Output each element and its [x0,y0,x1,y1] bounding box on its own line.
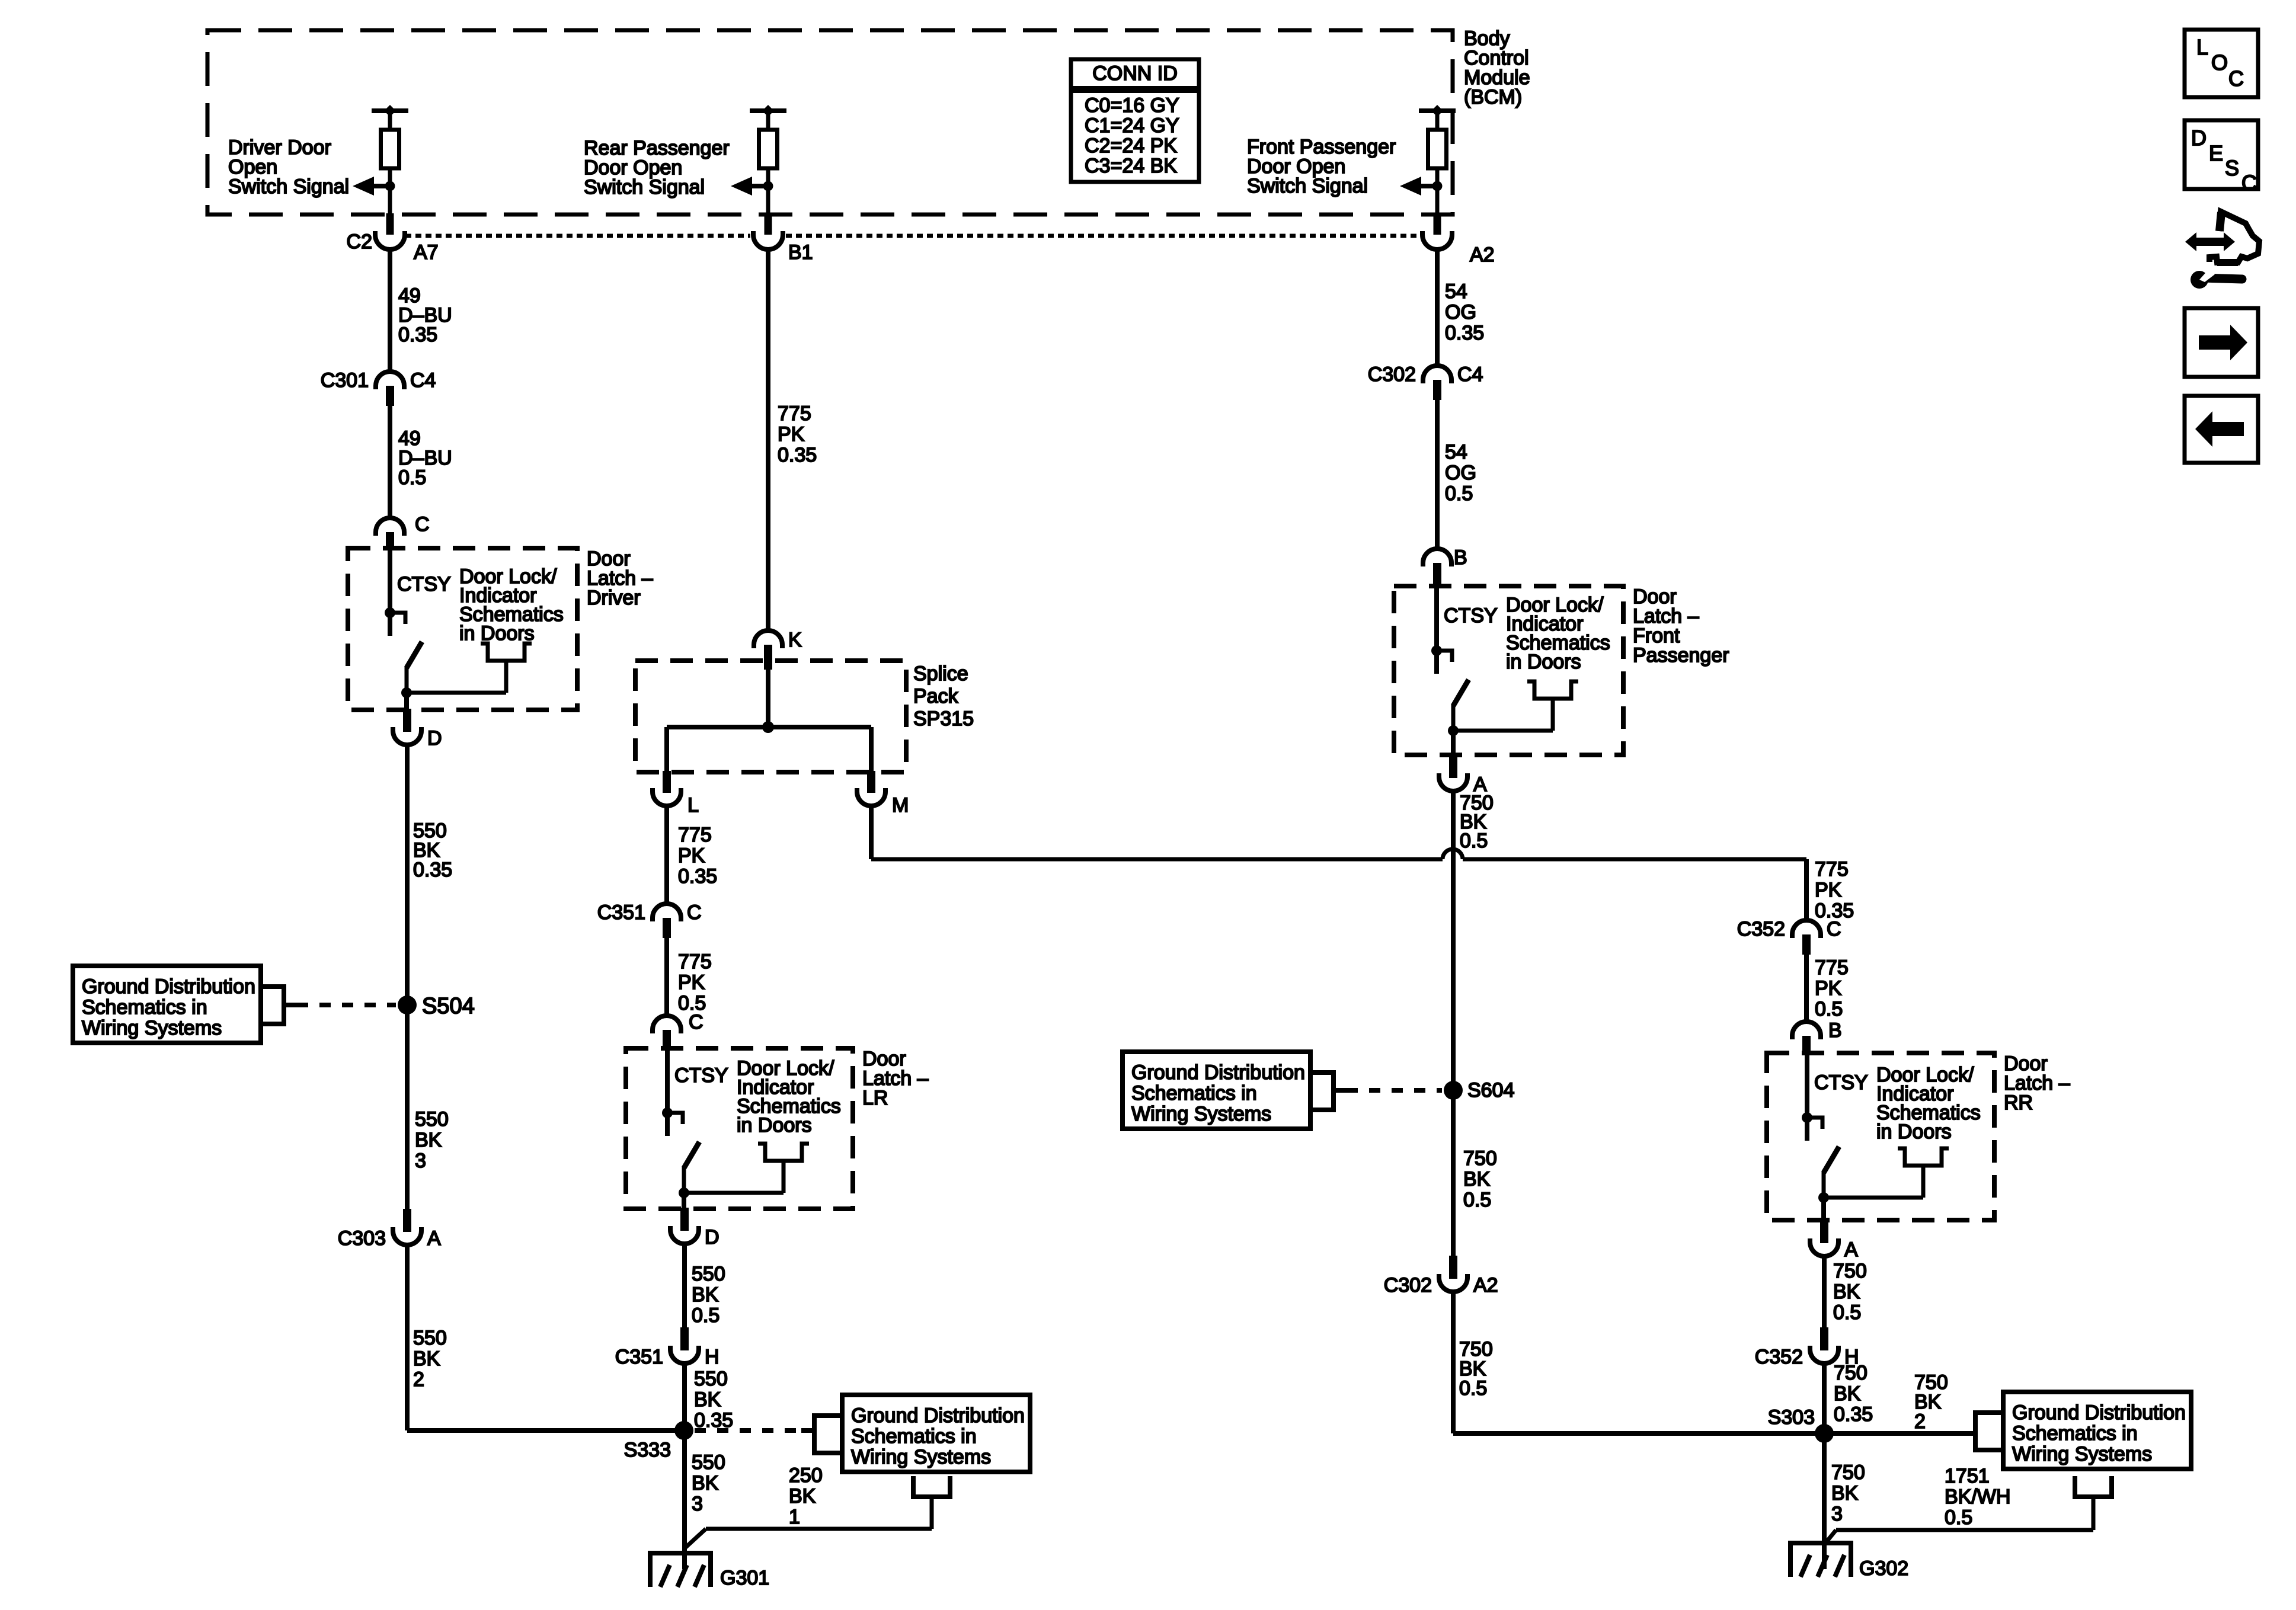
svg-text:(BCM): (BCM) [1464,86,1522,108]
svg-text:SP315: SP315 [913,708,974,730]
svg-text:Switch Signal: Switch Signal [584,176,705,199]
svg-text:Schematics in: Schematics in [1131,1082,1257,1105]
svg-text:C: C [2228,66,2244,91]
svg-text:CTSY: CTSY [397,573,451,596]
svg-text:750: 750 [1463,1147,1497,1170]
svg-text:C: C [1827,918,1841,940]
svg-text:B: B [1454,546,1467,569]
svg-text:S: S [2225,156,2239,180]
svg-text:0.5: 0.5 [1833,1301,1861,1324]
svg-text:A: A [1844,1238,1858,1261]
svg-text:PK: PK [678,971,705,994]
svg-text:L: L [2196,35,2208,59]
svg-text:C2: C2 [347,231,372,253]
svg-text:Switch Signal: Switch Signal [1247,175,1368,197]
svg-text:Splice: Splice [913,662,968,685]
svg-text:0.5: 0.5 [398,466,426,489]
svg-text:S333: S333 [624,1439,671,1461]
svg-text:Wiring Systems: Wiring Systems [2012,1443,2152,1465]
svg-text:Ground Distribution: Ground Distribution [851,1404,1025,1427]
svg-text:S303: S303 [1768,1406,1815,1429]
svg-text:CONN ID: CONN ID [1092,62,1178,85]
svg-text:550: 550 [694,1368,728,1390]
svg-text:C: C [415,513,430,536]
svg-text:A2: A2 [1470,244,1495,266]
svg-text:C303: C303 [338,1227,386,1250]
svg-text:0.35: 0.35 [778,444,817,466]
svg-text:Passenger: Passenger [1633,644,1729,667]
svg-text:OG: OG [1445,301,1476,324]
svg-text:0.5: 0.5 [1445,482,1473,505]
svg-text:BK: BK [1831,1482,1859,1505]
svg-text:Pack: Pack [913,685,959,708]
svg-text:BK: BK [1833,1281,1860,1303]
svg-text:C: C [687,901,702,924]
svg-text:B: B [1828,1019,1842,1042]
svg-text:O: O [2211,50,2228,75]
svg-text:LR: LR [862,1087,888,1109]
svg-text:Wiring Systems: Wiring Systems [851,1446,991,1468]
svg-text:750: 750 [1831,1461,1865,1484]
svg-text:L: L [687,794,699,817]
svg-text:in Doors: in Doors [459,622,535,645]
svg-text:550: 550 [692,1451,725,1474]
svg-text:M: M [892,794,909,817]
svg-text:A: A [427,1227,441,1250]
svg-text:PK: PK [678,844,705,867]
svg-text:750: 750 [1834,1362,1868,1384]
svg-text:775: 775 [678,824,712,846]
svg-text:C352: C352 [1737,918,1785,940]
svg-text:750: 750 [1833,1260,1867,1282]
svg-text:BK: BK [413,1347,440,1370]
svg-text:C4: C4 [410,369,436,392]
svg-text:C2=24 PK: C2=24 PK [1085,135,1177,157]
svg-text:CTSY: CTSY [674,1064,728,1087]
svg-text:BK: BK [415,1129,442,1151]
svg-text:Wiring Systems: Wiring Systems [1131,1103,1271,1125]
svg-text:Ground Distribution: Ground Distribution [2012,1401,2186,1424]
svg-text:D: D [2191,126,2207,150]
svg-text:54: 54 [1445,280,1467,303]
svg-text:PK: PK [778,423,805,446]
svg-text:S604: S604 [1467,1079,1514,1102]
svg-text:PK: PK [1815,879,1842,901]
svg-text:BK: BK [692,1283,719,1306]
svg-text:C351: C351 [615,1346,663,1368]
svg-text:C302: C302 [1384,1274,1432,1297]
svg-text:BK: BK [1834,1382,1861,1405]
svg-text:K: K [788,629,802,651]
svg-text:C352: C352 [1755,1346,1803,1368]
svg-text:BK: BK [692,1472,719,1494]
svg-text:Schematics in: Schematics in [851,1425,977,1448]
svg-text:0.35: 0.35 [413,859,452,881]
svg-text:0.5: 0.5 [1460,830,1488,852]
svg-text:Driver: Driver [587,587,641,609]
svg-text:0.5: 0.5 [1815,998,1843,1020]
svg-text:D: D [427,727,442,750]
svg-text:54: 54 [1445,441,1467,463]
svg-text:775: 775 [1815,956,1849,979]
svg-text:Ground Distribution: Ground Distribution [82,975,255,998]
svg-text:in Doors: in Doors [1876,1121,1952,1143]
svg-text:0.35: 0.35 [398,324,437,346]
svg-text:C302: C302 [1368,363,1416,386]
svg-text:3: 3 [692,1493,703,1515]
svg-text:E: E [2209,141,2223,165]
svg-text:0.35: 0.35 [678,865,717,888]
svg-text:Schematics in: Schematics in [82,996,207,1019]
svg-text:OG: OG [1445,462,1476,484]
svg-text:CTSY: CTSY [1444,604,1498,627]
svg-text:550: 550 [413,1327,447,1349]
svg-text:S504: S504 [422,994,475,1019]
svg-text:in Doors: in Doors [1506,651,1581,673]
svg-text:G302: G302 [1859,1557,1908,1580]
svg-text:G301: G301 [720,1567,769,1589]
svg-text:550: 550 [692,1263,725,1285]
svg-text:C: C [689,1011,703,1033]
svg-text:775: 775 [1815,858,1849,881]
svg-text:250: 250 [789,1464,823,1487]
svg-text:3: 3 [1831,1503,1843,1525]
svg-text:775: 775 [778,402,811,425]
svg-text:C351: C351 [597,901,645,924]
svg-text:0.5: 0.5 [1463,1189,1491,1211]
svg-text:550: 550 [415,1108,449,1131]
svg-text:RR: RR [2004,1092,2033,1114]
svg-text:Ground Distribution: Ground Distribution [1131,1061,1305,1084]
svg-text:BK: BK [694,1388,721,1411]
svg-text:775: 775 [678,950,712,973]
svg-text:0.35: 0.35 [1445,322,1484,344]
svg-text:Wiring Systems: Wiring Systems [82,1017,222,1039]
svg-text:in Doors: in Doors [737,1114,812,1137]
svg-text:0.5: 0.5 [1945,1506,1972,1529]
svg-text:D: D [705,1226,720,1249]
svg-text:PK: PK [1815,977,1842,1000]
svg-text:2: 2 [413,1368,424,1391]
svg-text:B1: B1 [788,241,813,264]
svg-text:0.35: 0.35 [1834,1403,1873,1426]
svg-text:C0=16 GY: C0=16 GY [1085,94,1179,117]
svg-text:3: 3 [415,1150,426,1172]
svg-text:Schematics in: Schematics in [2012,1422,2138,1445]
svg-text:C4: C4 [1457,363,1483,386]
svg-text:Switch Signal: Switch Signal [228,175,349,198]
svg-text:1: 1 [789,1506,800,1528]
svg-text:0.5: 0.5 [1459,1377,1487,1400]
svg-text:A7: A7 [414,241,439,264]
svg-text:C1=24 GY: C1=24 GY [1085,114,1179,137]
svg-text:CTSY: CTSY [1814,1071,1868,1094]
svg-text:H: H [705,1346,720,1368]
svg-text:A2: A2 [1473,1274,1498,1297]
svg-text:0.5: 0.5 [692,1304,720,1327]
svg-text:1751: 1751 [1945,1465,1990,1487]
svg-text:BK: BK [789,1485,816,1507]
svg-text:C3=24 BK: C3=24 BK [1085,155,1177,177]
svg-text:C: C [2241,171,2257,195]
svg-text:C301: C301 [321,369,369,392]
svg-text:2: 2 [1914,1410,1926,1433]
svg-text:BK: BK [1463,1168,1491,1190]
svg-text:BK/WH: BK/WH [1945,1486,2010,1508]
